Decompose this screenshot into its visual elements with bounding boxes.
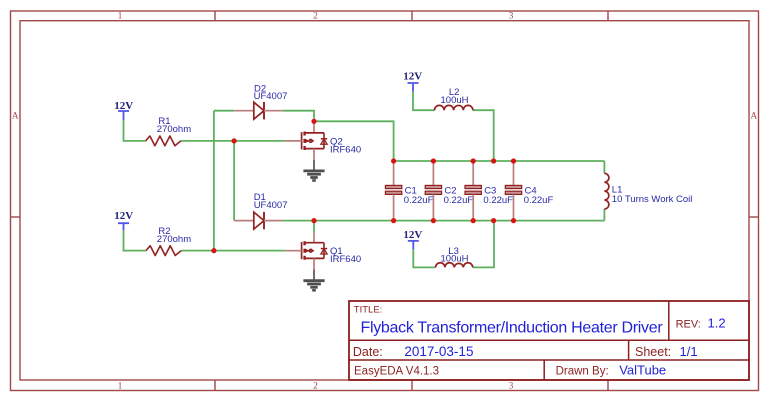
svg-text:Date:: Date: <box>353 345 383 359</box>
resistor R1 <box>146 136 181 146</box>
capacitor C3 <box>465 161 481 221</box>
inductor L2 <box>435 105 473 110</box>
bottom column tick 2 <box>411 380 413 391</box>
node top bus L2 <box>491 158 496 163</box>
node Q2 drain junction <box>311 119 316 124</box>
wire cross-couple vertical (D2 node to Q1 gate) <box>213 111 215 251</box>
node top bus C4 <box>511 158 516 163</box>
svg-text:270ohm: 270ohm <box>157 124 191 135</box>
svg-text:0.22uF: 0.22uF <box>404 195 434 206</box>
svg-text:TITLE:: TITLE: <box>354 305 383 316</box>
svg-text:2017-03-15: 2017-03-15 <box>404 344 473 359</box>
right row tick <box>749 216 759 218</box>
title block outline <box>349 301 749 380</box>
wire L1 top lead <box>603 161 605 173</box>
svg-text:0.22uF: 0.22uF <box>483 195 513 206</box>
capacitor C4 <box>505 161 521 221</box>
transistor Q2 <box>285 121 327 160</box>
svg-text:1: 1 <box>118 382 123 392</box>
svg-text:12V: 12V <box>114 210 133 222</box>
node top bus C3 <box>471 158 476 163</box>
wire 12V lower-left down to R2 <box>124 230 147 250</box>
svg-text:IRF640: IRF640 <box>330 144 361 155</box>
title block REV divider <box>668 301 670 340</box>
ground under Q1 <box>303 270 324 291</box>
wire bottom bus <box>283 220 605 222</box>
svg-text:IRF640: IRF640 <box>330 254 361 265</box>
wire L2 to top bus <box>473 110 494 161</box>
svg-text:0.22uF: 0.22uF <box>524 195 554 206</box>
capacitor C1 <box>385 161 401 221</box>
svg-text:UF4007: UF4007 <box>254 91 288 102</box>
bottom column tick 1 <box>214 380 216 391</box>
svg-text:270ohm: 270ohm <box>157 234 191 245</box>
svg-text:1: 1 <box>118 12 123 22</box>
bottom column tick 3 <box>607 380 609 391</box>
top column tick 1 <box>214 11 216 21</box>
power flag symbol above L3 <box>408 241 419 250</box>
svg-text:10 Turns Work Coil: 10 Turns Work Coil <box>612 194 693 205</box>
wire R1 to Q2 gate <box>181 140 285 142</box>
svg-text:A: A <box>12 112 19 122</box>
top column tick 3 <box>607 11 609 21</box>
wire 12V to L2 <box>413 92 435 110</box>
power flag symbol above L2 <box>408 83 419 92</box>
svg-text:Sheet:: Sheet: <box>635 345 671 359</box>
left row tick <box>11 216 21 218</box>
wire Q1 drain stub <box>313 221 315 233</box>
svg-text:3: 3 <box>509 382 514 392</box>
wire top bus <box>394 160 605 162</box>
node bottom bus C3 <box>471 218 476 223</box>
wire 12V to L3 <box>413 249 435 267</box>
svg-text:100uH: 100uH <box>441 95 469 106</box>
wire D2 anode stub <box>214 110 234 112</box>
node R1 to Q2 gate junction <box>232 138 237 143</box>
diode D2 <box>234 102 283 119</box>
node bottom bus C4 <box>511 218 516 223</box>
node bottom bus C1 <box>391 218 396 223</box>
resistor R2 <box>146 246 181 256</box>
svg-text:12V: 12V <box>114 100 133 112</box>
title block row divider 1 <box>349 339 749 341</box>
wire Q2 drain to top bus <box>314 121 394 161</box>
node top bus C2 <box>431 158 436 163</box>
svg-text:1.2: 1.2 <box>708 316 726 331</box>
top column tick 2 <box>411 11 413 21</box>
ground under Q2 <box>303 160 324 181</box>
svg-text:REV:: REV: <box>676 319 701 331</box>
svg-text:A: A <box>750 112 757 122</box>
wire D2 cathode to Q2 drain <box>283 111 314 122</box>
title block DrawnBy divider <box>543 360 545 380</box>
wire L3 to bottom bus <box>473 221 494 268</box>
capacitor C2 <box>425 161 441 221</box>
inductor L3 <box>436 263 473 268</box>
inductor L1 work coil <box>604 173 608 209</box>
svg-text:ValTube: ValTube <box>619 362 666 377</box>
node R2 to Q1 gate junction <box>211 248 216 253</box>
transistor Q1 <box>285 232 327 270</box>
svg-text:EasyEDA V4.1.3: EasyEDA V4.1.3 <box>354 365 439 377</box>
svg-text:UF4007: UF4007 <box>254 200 288 211</box>
node Q1 drain junction <box>311 218 316 223</box>
power flag symbol top left <box>118 111 129 120</box>
title block row divider 2 <box>349 359 749 361</box>
node bottom bus L3 <box>491 218 496 223</box>
svg-text:100uH: 100uH <box>441 254 469 265</box>
title block Sheet divider <box>628 340 630 360</box>
wire cross-couple vertical (Q2 gate to D1 anode) <box>233 141 235 221</box>
wire R2 to Q1 gate <box>181 250 285 252</box>
svg-text:12V: 12V <box>403 71 422 83</box>
svg-text:0.22uF: 0.22uF <box>444 195 474 206</box>
power flag symbol lower left <box>118 223 129 230</box>
svg-text:Drawn By:: Drawn By: <box>556 365 609 377</box>
wire L1 bottom lead <box>603 209 605 221</box>
svg-text:2: 2 <box>313 382 318 392</box>
svg-text:2: 2 <box>313 12 318 22</box>
svg-text:Flyback Transformer/Induction: Flyback Transformer/Induction Heater Dri… <box>361 320 664 337</box>
node bottom bus C2 <box>431 218 436 223</box>
svg-text:1/1: 1/1 <box>680 344 698 359</box>
wire 12V top-left down to R1 <box>124 120 146 141</box>
diode D1 <box>234 212 283 229</box>
svg-text:12V: 12V <box>403 229 422 241</box>
svg-text:3: 3 <box>509 12 514 22</box>
node top bus C1 <box>391 158 396 163</box>
